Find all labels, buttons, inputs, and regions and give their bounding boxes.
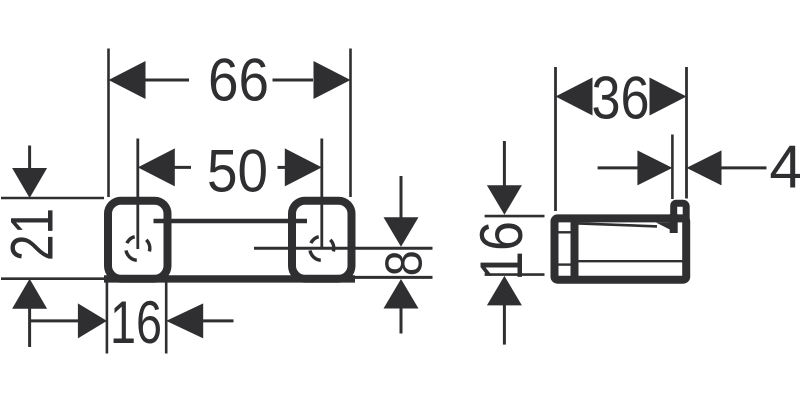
dim 16 left extension line right xyxy=(165,283,168,354)
dim 4 extension line left xyxy=(671,135,674,200)
dim 16 left line left xyxy=(30,319,79,322)
side view inner bottom line xyxy=(578,260,685,262)
svg-text:21: 21 xyxy=(0,208,66,261)
rail bottom edge xyxy=(104,275,355,282)
dim 8 shaft bottom xyxy=(400,308,403,334)
dim 50 arrow right xyxy=(285,148,322,186)
dim 66 extension line left xyxy=(107,49,110,198)
right hook body xyxy=(292,201,352,279)
dim 16 right arrow bottom xyxy=(487,276,522,306)
dim 50 line left xyxy=(174,166,191,169)
left hook body xyxy=(108,201,168,279)
dim 36 extension line right (shared with dim 4) xyxy=(685,67,688,199)
side view outer body xyxy=(555,218,687,279)
dim 16 left extension line left xyxy=(106,283,109,354)
side view lip xyxy=(674,203,687,220)
dim 66 extension line right xyxy=(349,49,352,198)
dim 50 line right xyxy=(278,166,288,169)
svg-text:36: 36 xyxy=(592,65,650,132)
dim 8 arrow bottom xyxy=(384,279,419,309)
dim 4 arrow right xyxy=(687,150,722,185)
svg-text:4: 4 xyxy=(769,134,800,201)
dim 21 shaft top xyxy=(28,146,31,170)
right hook centerline / 50 extension right xyxy=(320,139,323,250)
side view wall plate inner edge xyxy=(571,216,579,281)
dim 8 arrow top xyxy=(384,217,419,247)
dim 8 shaft top xyxy=(400,176,403,219)
dim 21 arrow top xyxy=(12,168,47,198)
dim 16 left arrow right xyxy=(166,303,203,338)
dim 21 shaft bottom xyxy=(28,308,31,347)
side view lip inner wedge xyxy=(656,223,674,232)
side view inner top line xyxy=(578,223,657,226)
dim 4 arrow left xyxy=(637,150,672,185)
dim 66 line right xyxy=(273,79,314,82)
dim 4 line right xyxy=(720,166,767,169)
rail center reference line (top of 8 dim) xyxy=(254,247,433,250)
dim 16 right arrow top xyxy=(487,185,522,215)
dim 4 line left xyxy=(598,166,639,169)
dim 21 arrow bottom xyxy=(12,279,47,309)
dim 16 right shaft bottom xyxy=(503,304,506,344)
dim 21 extension line top xyxy=(1,197,104,200)
dim 66 arrow right xyxy=(314,61,351,99)
dim 16 left arrow left xyxy=(78,303,107,338)
dim 21 extension line bottom xyxy=(1,277,104,280)
dim 16 right shaft top xyxy=(503,141,506,186)
svg-text:8: 8 xyxy=(376,250,434,276)
right hook mounting circle (dashed) xyxy=(310,237,334,261)
svg-text:16: 16 xyxy=(110,289,162,356)
dim 16 left line right xyxy=(202,319,234,322)
dim 16 right extension line top xyxy=(485,215,545,218)
rail top edge xyxy=(154,219,308,223)
svg-text:50: 50 xyxy=(207,138,268,205)
dim 36 extension line left xyxy=(554,67,557,211)
rail bottom reference line (bottom of 8 dim) xyxy=(355,276,433,279)
dim 50 arrow left xyxy=(138,148,175,186)
dim 36 arrow left xyxy=(556,78,593,116)
left hook centerline / 50 extension left xyxy=(136,139,139,250)
dim 66 arrow left xyxy=(109,61,146,99)
dim 66 line left xyxy=(145,79,189,82)
dim 36 arrow right xyxy=(650,78,687,116)
svg-text:66: 66 xyxy=(208,47,269,114)
side view plate tick upper xyxy=(559,231,571,233)
side view lip inner wall xyxy=(670,214,678,233)
side view plate tick lower xyxy=(559,263,571,265)
dim 16 right extension line bottom xyxy=(485,273,545,276)
svg-text:16: 16 xyxy=(468,221,535,281)
left hook mounting circle (dashed) xyxy=(126,237,150,261)
